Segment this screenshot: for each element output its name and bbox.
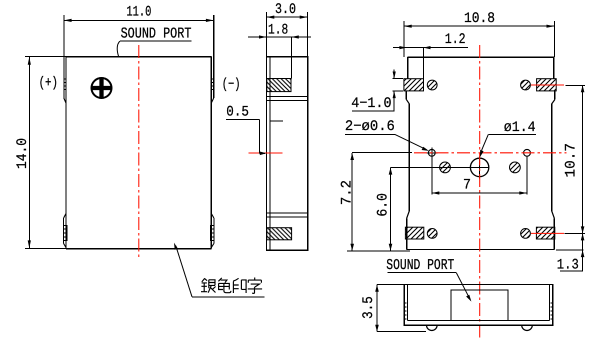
svg-text:0.5: 0.5 xyxy=(226,105,249,121)
svg-text:SOUND PORT: SOUND PORT xyxy=(386,257,454,274)
svg-text:2−ø0.6: 2−ø0.6 xyxy=(345,119,395,135)
svg-text:(−): (−) xyxy=(222,77,241,93)
svg-text:10.8: 10.8 xyxy=(464,11,495,27)
svg-text:3.5: 3.5 xyxy=(361,296,377,319)
svg-text:7: 7 xyxy=(463,178,471,194)
svg-text:14.0: 14.0 xyxy=(15,138,31,169)
svg-text:4−1.0: 4−1.0 xyxy=(351,96,391,112)
svg-text:ø1.4: ø1.4 xyxy=(504,120,536,136)
svg-text:3.0: 3.0 xyxy=(275,2,296,18)
svg-text:SOUND PORT: SOUND PORT xyxy=(121,26,192,43)
svg-text:6.0: 6.0 xyxy=(376,193,392,217)
svg-text:11.0: 11.0 xyxy=(126,4,151,20)
svg-text:(+): (+) xyxy=(39,76,58,92)
svg-text:1.2: 1.2 xyxy=(445,32,466,48)
svg-text:7.2: 7.2 xyxy=(339,180,355,205)
svg-text:10.7: 10.7 xyxy=(563,143,579,178)
svg-text:1.8: 1.8 xyxy=(268,23,288,39)
